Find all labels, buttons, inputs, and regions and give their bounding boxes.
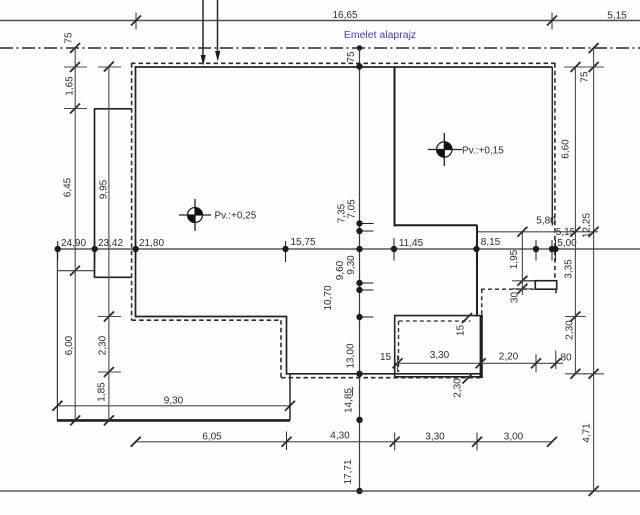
tick x522 y231.5: [517, 227, 527, 237]
tick x575.5 y316: [570, 312, 580, 322]
svg-text:11,45: 11,45: [399, 238, 424, 249]
label 16,65: [332, 10, 357, 21]
label 2,30 rotated lower: [453, 378, 464, 398]
tick x593.6 y373.5: [589, 369, 599, 379]
lower rect inner dashed top: [399, 320, 471, 322]
svg-text:9,60: 9,60: [335, 260, 346, 280]
wall left inner: [135, 66, 137, 317]
svg-text:10,70: 10,70: [323, 285, 334, 310]
tick y364 x398.5: [393, 358, 403, 368]
tick x108.8 y316: [104, 312, 114, 322]
arrow 1: [201, 0, 206, 66]
tick x466 y377: [463, 374, 473, 384]
wall top inner: [135, 66, 553, 68]
tick y364 x536: [531, 354, 541, 372]
label 9,95: [99, 179, 110, 199]
center dash-dot line: [0, 47, 640, 49]
Pv left text: [215, 211, 257, 222]
dim line x108.8: [108, 67, 110, 421]
svg-text:1,85: 1,85: [97, 382, 108, 402]
wall bottom inner: [286, 373, 481, 375]
labels along x359.5: [323, 51, 358, 485]
svg-text:Pv.:+0,25: Pv.:+0,25: [215, 211, 257, 222]
dashed vertical x481: [481, 289, 483, 315]
dim line x522: [521, 232, 523, 295]
svg-text:80: 80: [560, 353, 572, 364]
tick x522 y288.5: [517, 284, 527, 294]
terrace left edge: [56, 249, 58, 420]
svg-text:4,30: 4,30: [330, 431, 350, 442]
tick x75 y108.5: [70, 104, 80, 114]
left protrusion rect left: [94, 108, 96, 278]
tick x75 y420.5: [70, 415, 80, 425]
tick terrace x75 y270: [70, 266, 80, 276]
svg-text:6,45: 6,45: [63, 177, 74, 197]
tick x575.5 y67: [571, 62, 581, 72]
labels bottom dims: [202, 431, 523, 443]
svg-text:23,42: 23,42: [98, 238, 123, 249]
tick x108.8 y420.5: [104, 415, 114, 425]
tick y406.5 x57.7: [52, 401, 62, 411]
svg-text:4,71: 4,71: [582, 423, 593, 443]
svg-text:14,85: 14,85: [344, 388, 355, 413]
svg-text:3,35: 3,35: [564, 259, 575, 279]
right rotated labels: [561, 71, 593, 443]
dim line y406.5: [57, 405, 290, 407]
tick x522 y280: [517, 276, 527, 286]
label 1,95: [509, 249, 520, 269]
svg-text:24,90: 24,90: [61, 238, 86, 249]
svg-text:6,00: 6,00: [64, 335, 75, 355]
tick y364 x480.6: [476, 358, 486, 368]
ground floor outline dashed top: [131, 62, 556, 64]
left protrusion rect bottom: [95, 276, 132, 278]
Pv right text: [462, 146, 504, 157]
ground floor outline dashed right: [554, 63, 556, 280]
svg-text:6,05: 6,05: [202, 432, 222, 443]
dim line y441: [136, 441, 552, 443]
svg-text:3,30: 3,30: [425, 432, 445, 443]
svg-text:15,75: 15,75: [290, 237, 315, 248]
tick x593.6 y231.5: [589, 227, 599, 237]
svg-text:5,15: 5,15: [556, 227, 576, 238]
wall step vertical: [286, 316, 288, 375]
tick x108.8 y67: [104, 62, 114, 72]
svg-text:1,95: 1,95: [509, 249, 520, 269]
svg-text:1,65: 1,65: [65, 76, 76, 96]
svg-text:3,30: 3,30: [430, 350, 450, 361]
lintel right stub: [555, 289, 557, 296]
tick x575.5 y231.5: [570, 227, 580, 237]
extension line y231.8 to right: [477, 231, 598, 233]
right room left wall thick: [394, 66, 396, 226]
svg-text:5,15: 5,15: [607, 11, 627, 22]
svg-text:17,71: 17,71: [343, 459, 354, 484]
ground floor outline dashed bottom-left: [132, 319, 281, 321]
svg-text:21,80: 21,80: [139, 238, 164, 249]
dot dashdot x359.5: [357, 45, 362, 50]
label 6,45: [63, 177, 74, 197]
label 30: [510, 292, 521, 304]
svg-text:2,30: 2,30: [453, 378, 464, 398]
tick x466 y318: [462, 313, 472, 323]
window sill line y280.8: [522, 280, 535, 282]
svg-text:5,00: 5,00: [557, 238, 577, 249]
dim line y364: [395, 362, 563, 364]
lower rect right thick bar: [480, 316, 483, 378]
svg-text:2,30: 2,30: [565, 320, 576, 340]
title Emelet alaprajz: [344, 29, 416, 41]
svg-text:9,30: 9,30: [346, 255, 357, 275]
thick vertical wall x479.5: [476, 225, 478, 316]
tick x593.6 y67: [589, 62, 599, 72]
tick x575.5 y373.5: [570, 369, 580, 379]
tick x75 y67: [70, 62, 80, 72]
main middle dimension line: [57, 248, 640, 250]
tick dashdot x75: [70, 43, 80, 53]
svg-text:13,00: 13,00: [346, 343, 357, 368]
tick y441 x477: [472, 433, 482, 451]
svg-text:15: 15: [380, 352, 392, 363]
ground floor outline dashed bottom: [281, 377, 481, 379]
svg-text:6,60: 6,60: [561, 139, 572, 159]
svg-text:16,65: 16,65: [332, 10, 357, 21]
svg-text:Emelet alaprajz: Emelet alaprajz: [344, 29, 416, 41]
tick y441 x135.7: [131, 437, 141, 447]
svg-text:7,35: 7,35: [337, 203, 348, 223]
lower rect left: [394, 315, 396, 378]
label 5,15 top right: [607, 11, 627, 22]
svg-text:9,30: 9,30: [164, 395, 184, 406]
dim line x593.6 upper: [593, 48, 595, 491]
dashed horizontal y288.5: [481, 288, 535, 290]
wall bottom-left inner: [135, 316, 287, 318]
lower rect inner dashed left: [398, 321, 400, 372]
svg-text:8,15: 8,15: [481, 237, 501, 248]
small lintel rect: [535, 281, 556, 290]
label 6,00: [64, 335, 75, 355]
svg-text:75: 75: [64, 32, 75, 44]
svg-text:5,80: 5,80: [536, 216, 556, 227]
svg-text:3,00: 3,00: [504, 432, 524, 443]
lower rect bottom: [394, 376, 483, 378]
tick y406.5 x290: [285, 401, 295, 411]
terrace right edge: [289, 374, 291, 421]
running dim vertical line x359.5: [359, 48, 361, 491]
label 9,30 bottom: [164, 395, 184, 406]
label 15 rotated: [456, 325, 467, 337]
svg-text:15: 15: [456, 325, 467, 337]
top dimension line: [0, 20, 640, 22]
svg-text:9,95: 9,95: [99, 179, 110, 199]
label 1,65: [65, 76, 76, 96]
bottom long line: [0, 490, 640, 492]
svg-text:75: 75: [580, 71, 591, 83]
dim line x75: [74, 48, 76, 420]
left protrusion rect top: [95, 108, 132, 110]
dots on x359.5: [357, 64, 374, 494]
tick y441 x287: [282, 432, 292, 451]
svg-text:75: 75: [346, 51, 357, 63]
lower rect top: [394, 315, 483, 317]
tick y364 x556: [551, 351, 561, 369]
stroke before 14,85: [352, 387, 354, 396]
tick x108.8 y371.5: [104, 367, 114, 377]
Pv symbol right: [428, 133, 462, 166]
svg-text:30: 30: [510, 292, 521, 304]
labels middle row: [61, 216, 577, 250]
svg-text:Pv.:+0,15: Pv.:+0,15: [462, 146, 504, 157]
svg-text:2,30: 2,30: [98, 335, 109, 355]
label 75 left: [64, 32, 75, 44]
svg-text:12,25: 12,25: [582, 213, 593, 238]
ground floor outline dashed step vertical: [280, 320, 282, 378]
label 1,85: [97, 382, 108, 402]
middle dots: [55, 238, 558, 262]
right ext line y67: [564, 66, 604, 68]
tick x593.6 y490: [589, 486, 599, 496]
svg-text:2,20: 2,20: [499, 352, 519, 363]
Pv symbol left: [179, 199, 211, 231]
dim line x575.5: [574, 67, 576, 374]
label 2,30 left: [98, 335, 109, 355]
tick y441 x394.7: [390, 433, 400, 451]
tick top x136: [131, 13, 141, 30]
svg-text:7,05: 7,05: [347, 199, 358, 219]
ground floor outline dashed left: [131, 63, 133, 320]
terrace bottom thick: [57, 419, 290, 422]
labels y364 dims: [380, 350, 572, 364]
inner dashed right wall: [551, 67, 553, 226]
right room bottom wall: [394, 224, 478, 226]
terrace top edge: [57, 270, 94, 272]
tick y441 x552: [547, 437, 557, 447]
arrow 2: [215, 0, 220, 62]
tick top x552: [547, 13, 557, 30]
tick dashdot x593.6: [589, 43, 599, 53]
tick cross strokes: [64, 67, 604, 374]
